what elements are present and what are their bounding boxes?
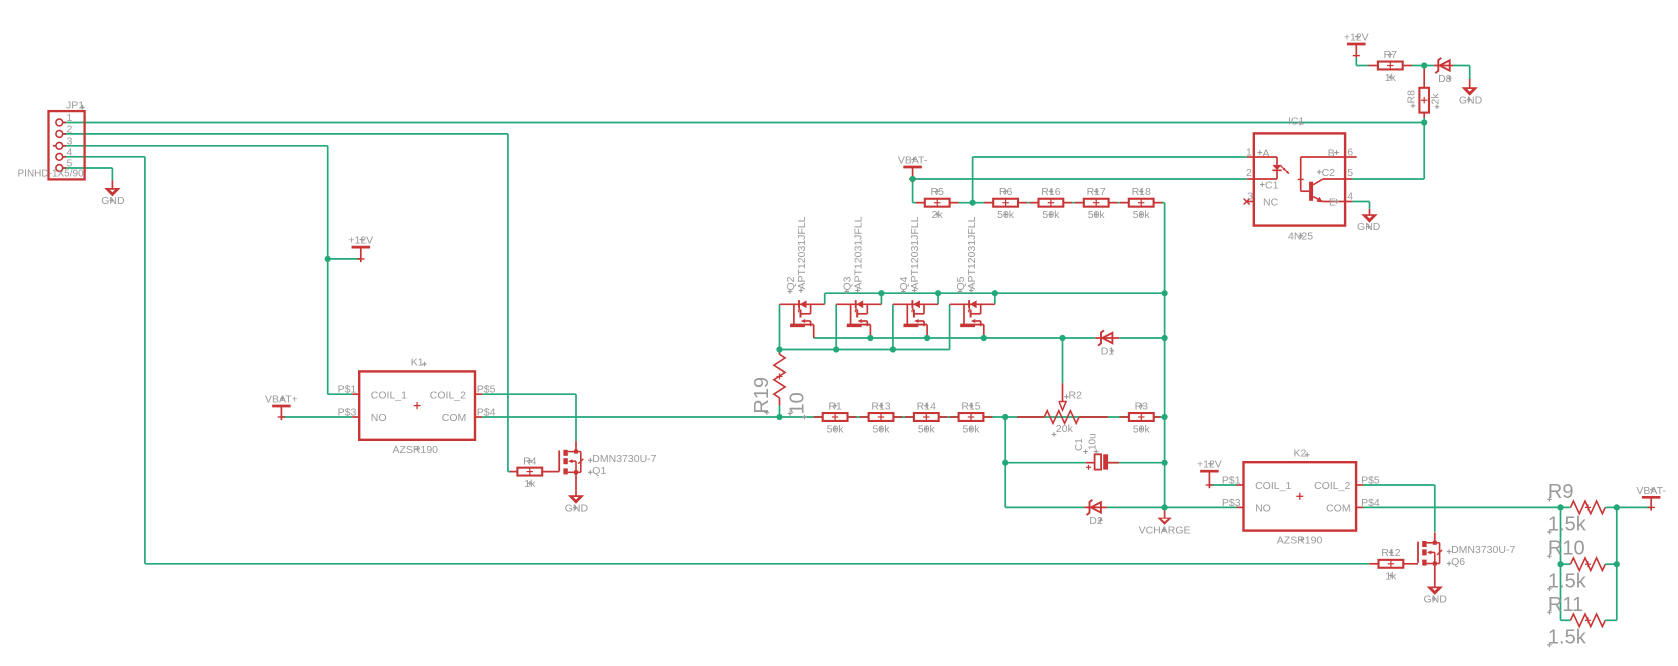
svg-text:P$1: P$1 <box>1222 475 1241 487</box>
svg-text:R19: R19 <box>751 377 773 414</box>
svg-text:+12V: +12V <box>348 235 373 247</box>
svg-text:A: A <box>1263 148 1270 160</box>
svg-text:P$1: P$1 <box>338 384 357 396</box>
svg-text:+12V: +12V <box>1197 459 1222 471</box>
svg-text:C1: C1 <box>1265 180 1279 192</box>
svg-text:IC1: IC1 <box>1288 116 1305 128</box>
svg-text:R10: R10 <box>1548 538 1585 560</box>
svg-text:VBAT-: VBAT- <box>1636 485 1666 497</box>
svg-text:P$3: P$3 <box>1222 497 1241 509</box>
svg-text:R8: R8 <box>1406 90 1418 104</box>
svg-text:E: E <box>1329 196 1336 208</box>
svg-text:COIL_2: COIL_2 <box>430 389 466 401</box>
svg-text:2k: 2k <box>1430 93 1442 105</box>
svg-text:4: 4 <box>67 146 73 158</box>
svg-text:R11: R11 <box>1548 594 1583 616</box>
svg-text:VBAT-: VBAT- <box>898 155 928 167</box>
svg-text:DMN3730U-7: DMN3730U-7 <box>592 453 656 465</box>
svg-text:COIL_2: COIL_2 <box>1314 480 1350 492</box>
svg-text:5: 5 <box>1347 167 1353 179</box>
svg-text:COM: COM <box>1326 503 1351 515</box>
svg-text:GND: GND <box>1459 94 1483 106</box>
svg-text:10: 10 <box>786 392 808 414</box>
svg-text:AZSR190: AZSR190 <box>393 444 439 456</box>
svg-text:COM: COM <box>442 412 467 424</box>
svg-text:COIL_1: COIL_1 <box>1255 480 1291 492</box>
svg-text:1.5k: 1.5k <box>1548 514 1587 536</box>
svg-text:C2: C2 <box>1322 167 1336 179</box>
svg-text:K1: K1 <box>411 357 424 369</box>
svg-text:C1: C1 <box>1074 438 1085 451</box>
svg-text:NC: NC <box>1263 196 1279 208</box>
svg-text:COIL_1: COIL_1 <box>371 389 407 401</box>
svg-text:APT12031JFLL: APT12031JFLL <box>909 216 921 289</box>
svg-text:20k: 20k <box>1056 423 1074 435</box>
svg-text:+12V: +12V <box>1344 32 1369 44</box>
svg-text:R2: R2 <box>1069 390 1083 402</box>
svg-text:3: 3 <box>1247 191 1253 203</box>
svg-text:6: 6 <box>1347 146 1353 158</box>
svg-text:P$5: P$5 <box>1361 475 1380 487</box>
svg-text:VBAT+: VBAT+ <box>265 394 298 406</box>
svg-text:Q6: Q6 <box>1451 556 1465 568</box>
svg-text:JP1: JP1 <box>66 100 84 112</box>
svg-text:Q1: Q1 <box>592 465 606 477</box>
svg-text:B: B <box>1328 148 1335 160</box>
svg-text:P$4: P$4 <box>477 407 496 419</box>
svg-text:1: 1 <box>1246 146 1252 158</box>
svg-text:2: 2 <box>1246 167 1252 179</box>
svg-text:10u: 10u <box>1087 433 1098 450</box>
svg-text:NO: NO <box>1255 503 1271 515</box>
svg-text:DMN3730U-7: DMN3730U-7 <box>1451 544 1515 556</box>
svg-text:P$3: P$3 <box>338 407 357 419</box>
svg-text:4: 4 <box>1347 191 1353 203</box>
svg-text:APT12031JFLL: APT12031JFLL <box>966 216 978 289</box>
svg-text:R9: R9 <box>1548 481 1574 503</box>
svg-text:GND: GND <box>1424 594 1448 606</box>
svg-text:2: 2 <box>67 123 73 135</box>
svg-text:PINHD-1X5/90: PINHD-1X5/90 <box>18 169 85 180</box>
svg-text:GND: GND <box>565 502 589 514</box>
svg-text:APT12031JFLL: APT12031JFLL <box>796 216 808 289</box>
svg-text:VCHARGE: VCHARGE <box>1139 525 1191 537</box>
svg-text:APT12031JFLL: APT12031JFLL <box>853 216 865 289</box>
svg-text:1.5k: 1.5k <box>1548 570 1587 592</box>
svg-text:P$4: P$4 <box>1361 497 1380 509</box>
svg-text:P$5: P$5 <box>477 384 496 396</box>
svg-text:1: 1 <box>67 112 73 124</box>
svg-text:NO: NO <box>371 412 387 424</box>
svg-text:K2: K2 <box>1294 447 1307 459</box>
svg-text:AZSR190: AZSR190 <box>1277 535 1323 547</box>
svg-text:GND: GND <box>101 195 125 207</box>
svg-text:1.5k: 1.5k <box>1548 626 1587 648</box>
